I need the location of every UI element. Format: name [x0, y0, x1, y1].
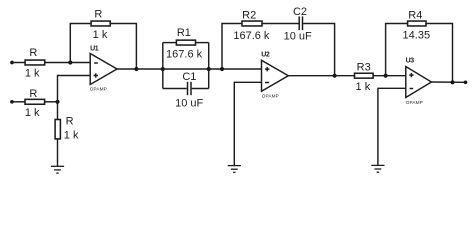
ground (U1 divider): [51, 166, 64, 173]
svg-text:OPAMP: OPAMP: [262, 94, 279, 99]
resistor R (divider, vertical): [55, 120, 60, 139]
wire down to divider resistor: [57, 102, 59, 120]
svg-text:U1: U1: [90, 45, 99, 52]
svg-text:R: R: [94, 9, 102, 21]
node B junction: [55, 100, 59, 104]
wire U1 feedback right vertical: [110, 24, 136, 70]
node U2 output junction: [333, 74, 337, 78]
node U3 output junction: [450, 80, 454, 84]
wire R2 to C2: [262, 23, 299, 25]
wire: [12, 62, 25, 64]
node U1 output junction: [134, 67, 138, 71]
svg-text:1 k: 1 k: [93, 29, 108, 41]
resistor R4: [408, 21, 426, 26]
node IN2 terminal: [10, 100, 14, 104]
wire U2 minus input to ground: [234, 82, 261, 165]
capacitor C2: [299, 16, 302, 30]
wire to U1 + input: [58, 76, 91, 102]
svg-text:14.35: 14.35: [403, 30, 431, 42]
wire bottom branch left: [163, 88, 187, 90]
resistor R3: [355, 73, 374, 78]
ground (U3): [371, 165, 384, 172]
svg-text:R: R: [66, 116, 74, 128]
node R1C1 left junction: [161, 67, 165, 71]
op-amp U1: [90, 54, 117, 85]
svg-text:R: R: [29, 47, 37, 59]
node U2 feedback tap: [220, 67, 224, 71]
node U3 feedback tap: [384, 74, 388, 78]
svg-text:R: R: [29, 88, 37, 100]
svg-text:U2: U2: [261, 51, 270, 58]
svg-text:R4: R4: [408, 10, 422, 22]
svg-text:C2: C2: [293, 6, 307, 18]
wire to ground: [57, 139, 59, 166]
capacitor C1: [188, 82, 192, 95]
wire top branch left: [163, 42, 177, 44]
node IN1 terminal: [10, 61, 14, 65]
wire U2 feedback right vertical: [303, 24, 334, 76]
resistor R (U1 feedback): [91, 21, 110, 26]
wire: [12, 101, 25, 103]
svg-text:1 k: 1 k: [25, 68, 40, 80]
svg-text:U3: U3: [406, 57, 415, 64]
svg-text:10 uF: 10 uF: [175, 98, 203, 110]
wire bottom branch right: [192, 88, 209, 90]
wire U3 output: [431, 81, 465, 83]
resistor R1: [176, 40, 195, 45]
node R1C1 right junction: [207, 67, 211, 71]
svg-text:R2: R2: [242, 10, 256, 22]
svg-text:10 uF: 10 uF: [284, 31, 312, 43]
wire to U2: [163, 68, 262, 70]
wire U1 output: [117, 68, 163, 70]
svg-text:C1: C1: [182, 71, 196, 83]
wire top branch right: [196, 42, 209, 44]
svg-text:OPAMP: OPAMP: [90, 86, 107, 91]
wire U2 feedback left vertical: [222, 24, 242, 70]
op-amp U3: [406, 67, 432, 98]
svg-text:1 k: 1 k: [64, 130, 79, 142]
svg-text:167.6 k: 167.6 k: [166, 48, 203, 60]
svg-text:1 k: 1 k: [25, 107, 40, 119]
wire U3 feedback left vertical: [386, 24, 408, 76]
resistor R (input 1): [25, 60, 45, 65]
wire U3 feedback right vertical: [426, 24, 453, 83]
node A junction: [68, 60, 72, 64]
wire left vertical: [162, 43, 164, 89]
node OUT terminal: [464, 80, 468, 84]
wire: [45, 62, 90, 64]
wire U3 minus input to ground: [378, 88, 406, 165]
resistor R2: [242, 21, 262, 26]
svg-text:1 k: 1 k: [356, 81, 371, 93]
wire right vertical: [208, 43, 210, 89]
wire U1 feedback left vertical: [70, 24, 91, 63]
wire: [45, 101, 58, 103]
resistor R (input 2): [25, 99, 45, 104]
svg-text:R3: R3: [357, 61, 371, 73]
svg-text:167.6 k: 167.6 k: [233, 30, 270, 42]
svg-text:R1: R1: [177, 27, 191, 39]
wire to U3: [373, 75, 406, 77]
op-amp U2: [262, 60, 289, 91]
wire U2 output: [288, 75, 354, 77]
svg-text:OPAMP: OPAMP: [406, 100, 423, 105]
ground (U2): [228, 166, 241, 173]
